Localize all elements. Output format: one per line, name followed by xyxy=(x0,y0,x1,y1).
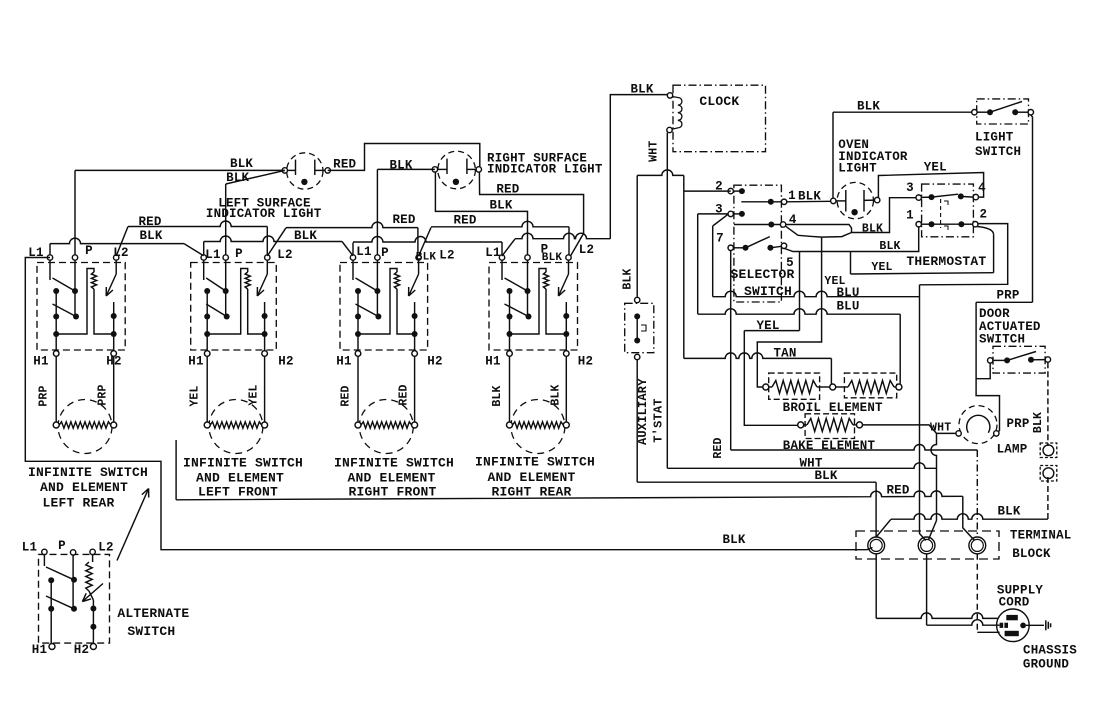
svg-text:BLU: BLU xyxy=(836,300,859,314)
svg-text:H2: H2 xyxy=(106,355,121,369)
svg-text:BLK: BLK xyxy=(857,100,880,114)
svg-text:1: 1 xyxy=(788,189,796,203)
svg-text:LEFT REAR: LEFT REAR xyxy=(42,496,114,511)
svg-text:LEFT FRONT: LEFT FRONT xyxy=(198,485,278,500)
svg-text:P: P xyxy=(58,539,66,553)
svg-text:ALTERNATE: ALTERNATE xyxy=(117,606,189,621)
svg-text:SWITCH: SWITCH xyxy=(975,145,1021,159)
svg-text:3: 3 xyxy=(906,181,914,195)
svg-text:CORD: CORD xyxy=(999,596,1030,610)
svg-text:L1: L1 xyxy=(205,248,220,262)
svg-text:INFINITE SWITCH: INFINITE SWITCH xyxy=(475,455,595,470)
svg-text:L1: L1 xyxy=(356,245,371,259)
svg-text:RED: RED xyxy=(392,213,415,227)
svg-text:BLOCK: BLOCK xyxy=(1012,547,1051,561)
svg-text:BLK: BLK xyxy=(416,252,437,264)
svg-text:BLK: BLK xyxy=(879,240,900,253)
svg-text:RED: RED xyxy=(886,484,909,498)
svg-text:BLK: BLK xyxy=(862,223,883,236)
svg-text:TAN: TAN xyxy=(773,347,796,361)
svg-text:YEL: YEL xyxy=(871,261,892,274)
svg-text:AND ELEMENT: AND ELEMENT xyxy=(196,471,284,486)
svg-text:BLK: BLK xyxy=(549,384,562,405)
svg-text:BLK: BLK xyxy=(630,82,653,96)
svg-text:P: P xyxy=(235,247,243,261)
svg-text:BLK: BLK xyxy=(491,385,504,406)
svg-text:LIGHT: LIGHT xyxy=(838,162,877,176)
svg-text:PRP: PRP xyxy=(1006,417,1029,431)
svg-text:T'STAT: T'STAT xyxy=(652,398,666,442)
svg-text:BLK: BLK xyxy=(139,229,162,243)
svg-text:L2: L2 xyxy=(579,243,594,257)
svg-text:BLK: BLK xyxy=(542,252,563,264)
svg-text:L2: L2 xyxy=(113,246,128,260)
svg-text:TERMINAL: TERMINAL xyxy=(1010,529,1072,543)
svg-text:BLK: BLK xyxy=(1032,412,1045,433)
svg-text:WHT: WHT xyxy=(930,421,951,434)
svg-text:RIGHT FRONT: RIGHT FRONT xyxy=(348,485,436,500)
svg-text:2: 2 xyxy=(980,208,988,222)
svg-text:7: 7 xyxy=(716,232,724,246)
svg-text:BLK: BLK xyxy=(622,268,635,289)
svg-text:AUXILIARY: AUXILIARY xyxy=(636,378,650,445)
svg-text:INDICATOR LIGHT: INDICATOR LIGHT xyxy=(206,207,322,221)
svg-text:SWITCH: SWITCH xyxy=(127,624,175,639)
svg-text:H1: H1 xyxy=(188,355,203,369)
svg-text:INFINITE SWITCH: INFINITE SWITCH xyxy=(334,456,454,471)
svg-text:DOOR: DOOR xyxy=(979,307,1010,321)
svg-text:L2: L2 xyxy=(277,248,292,262)
svg-text:BLK: BLK xyxy=(997,505,1020,519)
svg-text:H2: H2 xyxy=(74,643,89,657)
svg-text:H1: H1 xyxy=(336,355,351,369)
svg-text:L1: L1 xyxy=(485,246,500,260)
svg-text:P: P xyxy=(85,244,93,258)
svg-text:LIGHT: LIGHT xyxy=(975,131,1014,145)
svg-text:PRP: PRP xyxy=(996,288,1019,302)
svg-text:RED: RED xyxy=(712,437,725,458)
svg-text:PRP: PRP xyxy=(38,385,51,406)
svg-text:INFINITE SWITCH: INFINITE SWITCH xyxy=(183,456,303,471)
svg-text:H2: H2 xyxy=(278,355,293,369)
svg-text:P: P xyxy=(381,246,389,260)
svg-text:AND ELEMENT: AND ELEMENT xyxy=(487,470,575,485)
svg-text:LAMP: LAMP xyxy=(997,443,1028,457)
svg-text:BLK: BLK xyxy=(230,157,253,171)
svg-text:SELECTOR: SELECTOR xyxy=(730,267,794,282)
svg-text:YEL: YEL xyxy=(189,385,202,406)
svg-text:INDICATOR LIGHT: INDICATOR LIGHT xyxy=(487,163,603,177)
svg-text:H1: H1 xyxy=(485,355,500,369)
svg-text:AND ELEMENT: AND ELEMENT xyxy=(347,471,435,486)
svg-text:BLK: BLK xyxy=(489,199,512,213)
svg-text:RED: RED xyxy=(333,158,356,172)
svg-text:WHT: WHT xyxy=(648,141,661,162)
svg-text:BLK: BLK xyxy=(389,158,412,172)
svg-text:THERMOSTAT: THERMOSTAT xyxy=(906,254,986,269)
svg-text:H1: H1 xyxy=(32,643,47,657)
svg-text:H2: H2 xyxy=(578,355,593,369)
svg-text:SWITCH: SWITCH xyxy=(979,333,1025,347)
svg-text:BLK: BLK xyxy=(814,469,837,483)
svg-text:BLU: BLU xyxy=(836,286,859,300)
svg-text:INFINITE SWITCH: INFINITE SWITCH xyxy=(28,465,148,480)
svg-text:H1: H1 xyxy=(33,355,48,369)
svg-text:RED: RED xyxy=(453,214,476,228)
svg-text:YEL: YEL xyxy=(924,161,947,175)
svg-text:YEL: YEL xyxy=(824,275,845,288)
svg-text:4: 4 xyxy=(978,181,986,195)
svg-text:RED: RED xyxy=(340,385,353,406)
svg-text:PRP: PRP xyxy=(97,384,110,405)
svg-text:L1: L1 xyxy=(22,541,37,555)
svg-text:AND ELEMENT: AND ELEMENT xyxy=(40,480,128,495)
svg-text:CLOCK: CLOCK xyxy=(699,94,739,109)
svg-text:YEL: YEL xyxy=(248,384,261,405)
svg-text:L2: L2 xyxy=(439,249,454,263)
svg-text:CHASSIS: CHASSIS xyxy=(1023,644,1077,658)
svg-text:5: 5 xyxy=(786,256,794,270)
svg-text:BAKE ELEMENT: BAKE ELEMENT xyxy=(783,439,876,453)
svg-text:1: 1 xyxy=(906,209,914,223)
svg-text:H2: H2 xyxy=(427,355,442,369)
svg-text:BROIL ELEMENT: BROIL ELEMENT xyxy=(783,401,883,415)
svg-text:GROUND: GROUND xyxy=(1023,658,1070,672)
svg-text:YEL: YEL xyxy=(756,319,779,333)
svg-text:RED: RED xyxy=(398,384,411,405)
svg-text:BLK: BLK xyxy=(722,533,745,547)
svg-text:L2: L2 xyxy=(98,541,113,555)
